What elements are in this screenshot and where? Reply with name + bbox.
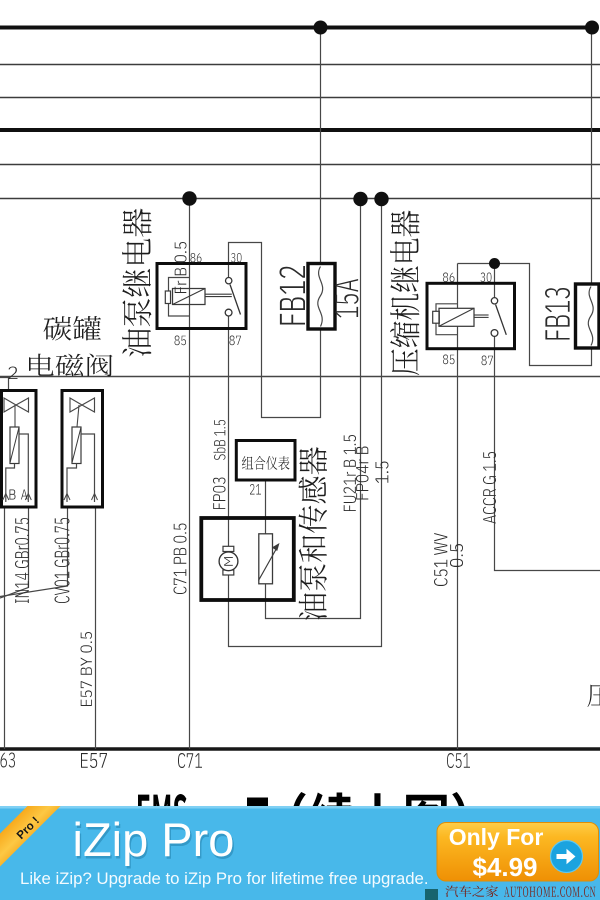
valve V1 carbon canister solenoid box <box>2 391 37 508</box>
label connector E57 <box>81 753 107 768</box>
page title EMS fragment <box>138 794 187 832</box>
watermark logo block <box>425 889 438 900</box>
wire: solenoid valve 1 pin B down to connector 63 <box>4 507 6 749</box>
label wire 1.5 <box>376 462 389 484</box>
wire: FB13 feed from top bus <box>591 28 593 285</box>
sensor R1 fuel level sender body <box>259 534 273 584</box>
motor M1 fuel pump: body circle <box>219 552 238 571</box>
wire: bus rail 3 <box>0 97 600 99</box>
label wire IN14 GBr0.75 <box>15 518 29 603</box>
motor M1 fuel pump: brushes <box>223 546 234 551</box>
relay K2 switch contact 87 <box>491 330 498 337</box>
label 压 (next section, clipped at right edge) <box>588 684 600 707</box>
label FB12 rating 15A <box>336 279 359 318</box>
label K1 name 油泵继电器 (fuel pump relay) <box>122 209 152 357</box>
instrument cluster 组合仪表 box <box>236 441 295 481</box>
label wire CV01 GBr0.75 <box>55 518 70 603</box>
label wire FU21r B 1.5 <box>344 435 357 511</box>
wire: relay K1 pin 87 to fuel pump motor <box>228 316 230 546</box>
wire: solenoid valve 2 right pin down to connector E57 <box>95 507 97 749</box>
relay K1 switch contact 87 <box>225 309 232 316</box>
fuse FB12 element (squiggle) <box>318 267 323 327</box>
node: junction ground bus / motor return <box>374 192 388 206</box>
node: junction K2 feed / pin 30 riser <box>489 258 500 269</box>
valve V2 internal leads <box>67 434 95 502</box>
valve V1 pin arrows <box>3 494 32 501</box>
label wire C51 WV <box>434 533 448 586</box>
label connector 63 <box>1 753 16 768</box>
valve V1 bowtie symbol <box>4 398 29 412</box>
label connector C71 <box>178 753 202 768</box>
label V1 pin A <box>21 490 28 500</box>
label K1 pin 85 <box>175 336 187 346</box>
label connector C51 <box>447 753 470 768</box>
button arrow <box>557 849 576 864</box>
svg-text:iZip Pro: iZip Pro <box>73 813 235 866</box>
wire: relay K2 pin 30 riser <box>494 264 496 298</box>
fuse FB13 body <box>576 284 600 348</box>
sensor R1 wiper arrow <box>259 549 277 581</box>
label K1 pin 30 <box>231 253 242 262</box>
svg-text:$4.99: $4.99 <box>472 852 537 882</box>
label wire FP04r B <box>356 447 369 500</box>
label V1 pin B <box>10 490 16 500</box>
svg-text:Like iZip? Upgrade to iZip Pro: Like iZip? Upgrade to iZip Pro for lifet… <box>20 869 429 888</box>
label unit name 油泵和传感器 (fuel pump and sensor) <box>299 447 328 620</box>
label K2 pin 86 <box>443 273 455 283</box>
label wire C71 PB 0.5 <box>174 524 187 595</box>
label 组合仪表 (instrument cluster) <box>242 456 290 470</box>
node: junction top bus / FB13 feed <box>585 21 599 35</box>
wire: FB12 output elbow to relay K1 pin 30 <box>229 243 321 418</box>
label K1 pin 87 <box>230 336 242 346</box>
relay K1 switch contact 30 <box>226 278 232 284</box>
relay K2 switch contact 30 <box>491 298 497 304</box>
valve V1 internal leads <box>6 434 29 502</box>
label wire FP03 <box>213 478 226 510</box>
valve V2 coil <box>72 427 81 464</box>
node: junction ground bus / K1 pin 86 <box>182 191 196 205</box>
label wire SbB 1.5 <box>214 420 226 460</box>
motor M1 letter M <box>224 557 233 566</box>
buy button <box>437 823 599 882</box>
valve V1 coil <box>10 427 19 464</box>
watermark AUTOHOME.COM.CN <box>504 887 596 898</box>
wire: horizontal interconnect rail mid-page <box>0 376 600 378</box>
label K2 pin 87 <box>482 356 494 366</box>
label fuse FB12 <box>280 266 306 325</box>
wire: power bus rail 4 (thick) <box>0 128 600 132</box>
label V1 pin 2 <box>9 367 18 380</box>
relay K1 fuel pump relay box <box>157 264 246 329</box>
wire: relay K1 pin 86 feed from ground bus <box>189 199 191 264</box>
relay K1 coil parallel branch with resistor <box>169 278 190 317</box>
wire: FB12 feed from top bus <box>320 28 322 264</box>
label 碳罐 (carbon canister) line 1 <box>44 316 102 341</box>
wire: relay K2 pin 85 down to connector C51 <box>457 326 459 749</box>
label K1 pin 86 <box>191 253 202 262</box>
relay K2 switch blade <box>496 305 507 335</box>
label K2 pin 30 <box>481 273 492 283</box>
wire: ground bus rail 6 <box>0 198 600 200</box>
label wire ACCR G 1.5 <box>483 452 496 524</box>
wire: solenoid valve 1 pin A (IN14) with diagonal exit left <box>0 507 29 598</box>
wire: bottom connector rail (thick) <box>0 747 600 751</box>
label K2 pin 85 <box>443 355 455 365</box>
wire: bus rail 5 <box>0 164 600 166</box>
valve V2 carbon canister solenoid box <box>62 391 103 508</box>
wire: FB13 output elbow feeding relay K2 <box>458 264 592 366</box>
relay K1 switch blade <box>230 285 241 315</box>
wire: power bus rail 1 (thick, top) <box>0 26 596 30</box>
wire: solenoid valve 2 left pin (CV01) with diagonal exit left <box>0 507 68 597</box>
ad banner background <box>0 806 600 900</box>
wire: fuel pump motor return to ground bus (elbow) <box>229 199 382 647</box>
relay K2 compressor relay box <box>427 283 515 348</box>
label cluster pin 21 <box>250 484 261 495</box>
wire: bus rail 2 <box>0 64 600 66</box>
label K2 name 压缩机继电器 (compressor relay) <box>390 211 420 376</box>
label wire 0.5 <box>450 544 463 567</box>
valve V2 bowtie symbol <box>70 398 95 412</box>
wire: instrument cluster pin 21 to fuel level sensor <box>265 480 267 534</box>
wire: relay K2 pin 87 to A/C compressor (off page right) <box>495 336 600 570</box>
relay K1 coil <box>173 289 206 305</box>
label fuse FB13 <box>545 288 570 340</box>
watermark 汽车之家 <box>446 886 499 898</box>
wire: fuel level sensor return to ground bus (elbow) <box>266 199 361 619</box>
button arrow circle <box>551 841 583 873</box>
svg-text:Only For: Only For <box>449 824 544 850</box>
relay K2 coil <box>439 308 474 326</box>
label 电磁阀 (solenoid valve) line 2 <box>29 354 113 377</box>
fuse FB13 element (squiggle) <box>588 287 593 346</box>
ad banner corner ribbon <box>0 806 61 867</box>
relay K1 actuator link <box>205 293 232 295</box>
relay K2 coil parallel branch with resistor <box>436 304 458 335</box>
node: junction top bus / FB12 feed <box>314 21 328 35</box>
wire: solenoid valve 1 pin 2 stub (off page left) <box>0 378 9 391</box>
label wire Fr B 0.5 <box>175 242 187 293</box>
wire: relay K2 pin 86 riser <box>457 264 459 309</box>
node: junction ground bus / sensor return <box>353 192 367 206</box>
fuse FB12 body <box>308 264 335 330</box>
relay K2 actuator link <box>474 314 489 316</box>
valve V2 pin arrows <box>64 494 98 501</box>
fuel pump and sensor unit box <box>201 518 293 600</box>
wire: relay K1 pin 86-85 through-wire down to connector C71 <box>189 264 191 750</box>
label wire E57 BY 0.5 <box>81 632 93 706</box>
